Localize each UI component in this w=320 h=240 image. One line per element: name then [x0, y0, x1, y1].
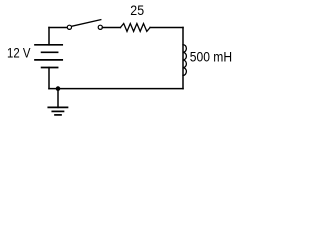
- wire: top rail from battery to switch left terminal: [49, 27, 67, 29]
- wire: switch right terminal to resistor: [102, 27, 120, 29]
- junction node (dot): [56, 86, 61, 91]
- wire: resistor to top-right corner: [150, 27, 183, 29]
- wire: battery bottom stem: [48, 68, 50, 89]
- battery 12 V (plates): [35, 45, 62, 68]
- inductor 500 mH (coil bumps): [183, 45, 186, 76]
- resistor 25 (zigzag): [120, 24, 150, 32]
- switch right terminal circle: [98, 25, 102, 29]
- switch blade: [72, 20, 101, 27]
- svg-text:500 mH: 500 mH: [190, 48, 232, 64]
- svg-text:12 V: 12 V: [7, 46, 31, 61]
- svg-text:25: 25: [130, 3, 144, 18]
- ground stem: [57, 89, 59, 108]
- wire: bottom rail from bottom-right corner to bottom-left corner: [49, 88, 183, 90]
- ground: [48, 107, 67, 115]
- switch left terminal circle: [67, 25, 71, 29]
- wire: right branch (top-right corner down through inductor to bottom-right corner): [182, 28, 184, 89]
- wire: battery top stem up to top rail: [48, 28, 50, 45]
